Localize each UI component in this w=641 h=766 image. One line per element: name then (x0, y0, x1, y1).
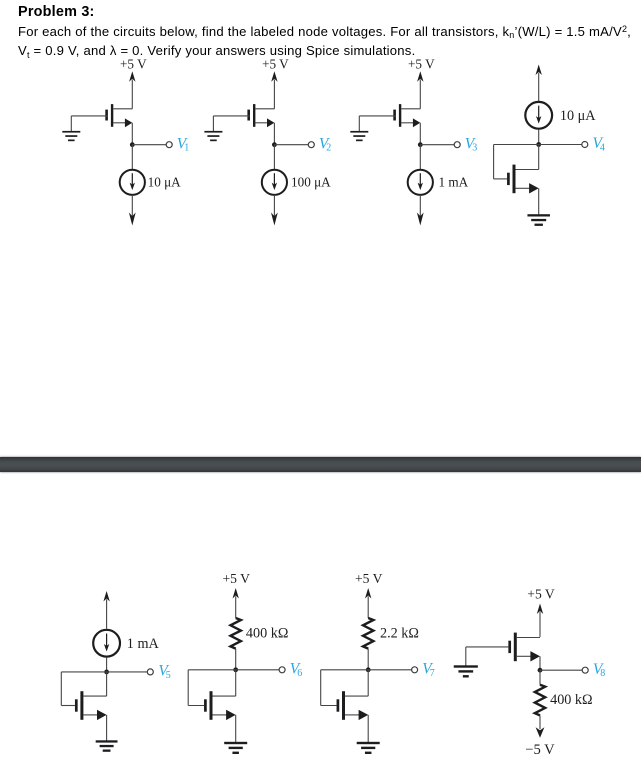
ground (gate of Q3) (350, 131, 368, 133)
ground (gate of Q8) (454, 665, 478, 667)
svg-text:4: 4 (600, 143, 605, 154)
wire: source of Q7 to ground (367, 715, 369, 742)
supply arrow (circuit 5) (103, 591, 109, 602)
svg-text:+5 V: +5 V (222, 571, 250, 586)
wire: current source to negative rail (circuit 2) (273, 195, 275, 217)
terminal circle V8 (582, 667, 588, 673)
negative rail arrow (circuit 2) (271, 213, 278, 226)
supply arrow (circuit 8) (537, 604, 543, 615)
svg-text:2: 2 (326, 143, 331, 154)
transistor Q2 (247, 110, 250, 121)
terminal circle V6 (279, 667, 285, 673)
wire: node to current source (circuit 3) (419, 145, 421, 170)
node V8 junction dot (538, 668, 543, 673)
current source I4 (525, 102, 552, 129)
wire: node to current source (circuit 1) (131, 145, 133, 170)
supply arrow (circuit 1) (129, 71, 135, 82)
terminal circle V3 (454, 142, 460, 148)
wire: node to terminal V4 (539, 144, 582, 146)
resistor R7 (363, 618, 373, 649)
negative rail arrow (circuit 1) (129, 213, 136, 226)
svg-text:100 μA: 100 μA (291, 175, 331, 190)
supply arrow (circuit 4) (536, 65, 542, 76)
ground (circuit 6) (224, 742, 247, 744)
wire: source of Q5 to ground (106, 715, 108, 741)
transistor Q5 (75, 699, 78, 711)
wire: +5 V rail to drain (circuit 2) (273, 80, 275, 109)
wire: rail to resistor R6 (235, 596, 237, 618)
wire: current source I5 to node V5 (106, 658, 108, 672)
wire: source of Q3 to node V3 (419, 123, 421, 145)
supply arrow (circuit 3) (417, 71, 423, 82)
current source I5 (93, 630, 120, 657)
transistor Q1 (105, 110, 108, 121)
wire: node to terminal V5 (107, 671, 148, 673)
wire: +5 V rail to drain (circuit 1) (131, 80, 133, 109)
wire: node to current source (circuit 2) (273, 145, 275, 170)
transistor Q4 (507, 173, 510, 185)
gate wire (circuit 1) (71, 115, 107, 117)
wire: rail to drain of Q8 (539, 612, 541, 637)
dark divider bar (0, 457, 641, 472)
gate wire (circuit 2) (213, 115, 249, 117)
ground (circuit 5) (96, 740, 118, 742)
wire: node to terminal V1 (132, 144, 166, 146)
transistor Q6 (204, 699, 207, 711)
svg-text:400 kΩ: 400 kΩ (246, 626, 288, 642)
node V5 junction dot (104, 670, 109, 675)
current source I2 (262, 170, 287, 195)
wire: current source to negative rail (circuit 1) (131, 195, 133, 217)
wire: source of Q4 to ground (538, 188, 540, 214)
wire: source of Q1 to node V1 (131, 123, 133, 145)
wire: resistor R7 to node V7 (367, 649, 369, 670)
svg-text:10 μA: 10 μA (148, 175, 182, 190)
ground (circuit 7) (357, 742, 380, 744)
resistor R8 (535, 685, 545, 716)
node V1 junction dot (130, 142, 135, 147)
svg-text:−5 V: −5 V (525, 742, 555, 758)
terminal circle V1 (166, 142, 172, 148)
svg-text:+5 V: +5 V (355, 571, 383, 586)
svg-text:6: 6 (297, 668, 302, 679)
supply arrow (circuit 6) (233, 588, 239, 599)
node V7 junction dot (366, 667, 371, 672)
svg-text:10 μA: 10 μA (560, 108, 596, 124)
node V4 junction dot (536, 142, 541, 147)
svg-text:1 mA: 1 mA (439, 175, 469, 190)
ground (gate of Q2) (204, 131, 222, 133)
wire: drain of Q7 to node V7 (367, 670, 369, 696)
gate wire (circuit 3) (359, 115, 395, 117)
wire: resistor R8 to -5 V rail (539, 715, 541, 729)
wire: current source to negative rail (circuit 3) (419, 195, 421, 217)
wire: drain of Q4 to node V4 (538, 145, 540, 170)
feedback wire: node V5 to gate of Q5 (61, 671, 106, 673)
gate wire (circuit 8) (466, 646, 509, 648)
wire: +5 V rail to drain (circuit 3) (419, 80, 421, 109)
negative rail arrow (circuit 8) (536, 727, 545, 737)
svg-text:3: 3 (472, 143, 477, 154)
ground (source of Q4) (527, 214, 550, 216)
wire: rail to current source I5 (106, 599, 108, 628)
node V2 junction dot (272, 142, 277, 147)
svg-text:400 kΩ: 400 kΩ (550, 692, 592, 708)
svg-text:8: 8 (600, 668, 605, 679)
wire: node to terminal V7 (368, 669, 411, 671)
svg-text:5: 5 (166, 670, 171, 681)
svg-text:+5 V: +5 V (527, 586, 555, 601)
svg-text:+5 V: +5 V (262, 56, 289, 71)
wire: node to terminal V2 (274, 144, 308, 146)
wire: node to terminal V8 (540, 669, 582, 671)
svg-text:+5 V: +5 V (408, 56, 435, 71)
feedback wire: node V4 to gate of Q4 (494, 144, 539, 146)
negative rail arrow (circuit 3) (417, 213, 424, 226)
node V3 junction dot (418, 142, 423, 147)
terminal circle V4 (582, 142, 588, 148)
svg-text:+5 V: +5 V (120, 56, 147, 71)
wire: current source I4 to node V4 (538, 130, 540, 145)
wire: rail to resistor R7 (367, 596, 369, 618)
transistor Q3 (393, 110, 396, 121)
svg-text:7: 7 (430, 668, 435, 679)
wire: node V8 to resistor R8 (539, 670, 541, 685)
svg-text:2.2 kΩ: 2.2 kΩ (380, 626, 419, 642)
wire: node to terminal V3 (420, 144, 454, 146)
wire: rail to current source I4 (538, 73, 540, 101)
svg-text:1 mA: 1 mA (127, 636, 160, 652)
feedback wire: node V7 to gate of Q7 (321, 669, 369, 671)
svg-text:1: 1 (184, 143, 189, 154)
wire: drain of Q6 to node V6 (235, 670, 237, 696)
transistor Q8 (508, 641, 511, 653)
ground (gate of Q1) (62, 131, 80, 133)
wire: source of Q2 to node V2 (273, 123, 275, 145)
wire: node to terminal V6 (236, 669, 279, 671)
supply arrow (circuit 7) (365, 588, 371, 599)
transistor Q7 (337, 699, 340, 711)
current source I1 (120, 170, 145, 195)
wire: source of Q6 to ground (235, 715, 237, 742)
wire: resistor R6 to node V6 (235, 649, 237, 670)
supply arrow (circuit 2) (271, 71, 277, 82)
terminal circle V2 (308, 142, 314, 148)
terminal circle V5 (147, 669, 153, 675)
node V6 junction dot (233, 667, 238, 672)
resistor R6 (231, 618, 241, 649)
wire: drain of Q5 to node V5 (106, 672, 108, 696)
current source I3 (408, 170, 433, 195)
wire: source of Q8 to node V8 (539, 656, 541, 670)
feedback wire: node V6 to gate of Q6 (188, 669, 236, 671)
terminal circle V7 (412, 667, 418, 673)
